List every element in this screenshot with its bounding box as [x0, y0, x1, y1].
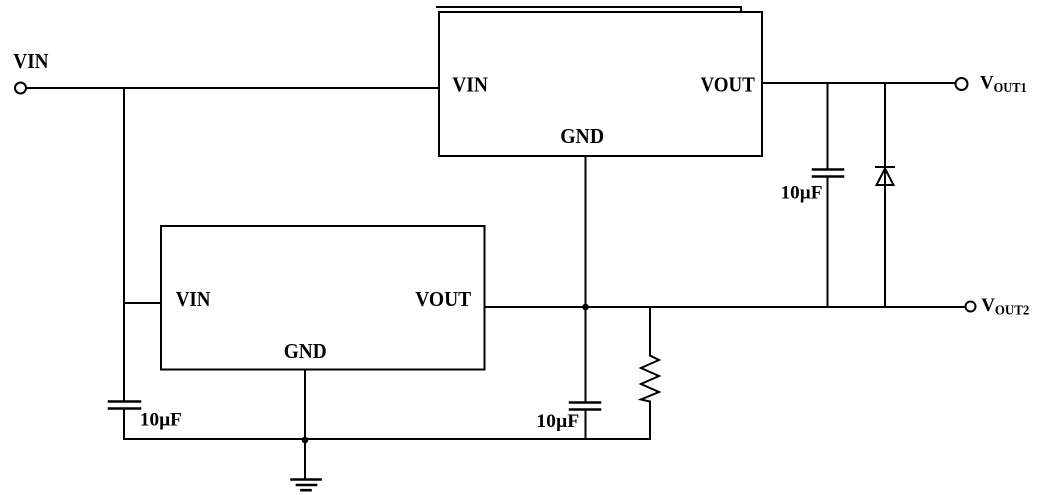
wire U1 GND pin down through rail to capacitor C2	[585, 156, 587, 402]
svg-text:10µF: 10µF	[536, 411, 579, 432]
svg-text:VOUT: VOUT	[701, 72, 755, 96]
svg-text:OUT2: OUT2	[995, 303, 1030, 318]
junction dot at U2 GND and ground rail	[302, 437, 309, 444]
svg-text:V: V	[981, 295, 995, 316]
wire VOUT1 down to diode D1 cathode	[884, 83, 886, 185]
capacitor C3	[813, 170, 843, 177]
wire input branch down to U2 and C1	[123, 88, 125, 401]
terminal VOUT2	[966, 302, 976, 312]
svg-text:OUT1: OUT1	[994, 80, 1027, 95]
svg-text:VIN: VIN	[452, 72, 488, 96]
svg-text:V: V	[980, 73, 994, 94]
wire VIN input to regulator U1 VIN pin	[27, 87, 440, 89]
junction dot at GND wire and VOUT2 rail	[582, 304, 589, 311]
wire artifact line above U1 top edge	[437, 7, 741, 11]
wire C2 bottom to ground rail	[585, 411, 587, 439]
ground symbol stem	[304, 440, 306, 479]
capacitor C2	[570, 403, 600, 410]
node VOUT2 label	[981, 295, 1029, 318]
wire branch into U2 VIN pin	[124, 302, 161, 304]
svg-text:GND: GND	[560, 124, 604, 148]
wire U2 VOUT to terminal VOUT2 (rail)	[485, 306, 966, 308]
svg-text:10µF: 10µF	[140, 410, 182, 431]
wire C3 bottom to VOUT2 rail	[827, 178, 829, 307]
ground symbol	[292, 480, 321, 491]
terminal VOUT1	[956, 78, 968, 90]
diode D1	[876, 167, 894, 185]
resistor R1 bottom lead to ground rail	[649, 402, 651, 440]
regulator U1 (top box)	[439, 12, 762, 156]
wire VOUT1 down to capacitor C3	[827, 83, 829, 168]
regulator U2 (lower box)	[161, 226, 485, 370]
wire C1 bottom to ground rail	[123, 410, 125, 439]
svg-text:10µF: 10µF	[781, 183, 823, 204]
terminal VIN	[15, 83, 26, 94]
capacitor C1 (left)	[109, 402, 140, 409]
node VOUT1 label	[980, 73, 1027, 96]
svg-text:VIN: VIN	[176, 287, 211, 311]
wire U2 GND pin down to ground rail	[304, 370, 306, 441]
svg-text:VOUT: VOUT	[415, 287, 471, 311]
wire U1 VOUT to terminal VOUT1	[762, 82, 956, 84]
wire ground rail	[124, 438, 650, 440]
svg-text:GND: GND	[284, 339, 327, 363]
resistor R1 top lead from VOUT2 rail	[649, 307, 651, 356]
wire D1 anode to VOUT2 rail	[884, 185, 886, 307]
svg-text:VIN: VIN	[13, 49, 48, 73]
resistor R1	[641, 356, 659, 402]
